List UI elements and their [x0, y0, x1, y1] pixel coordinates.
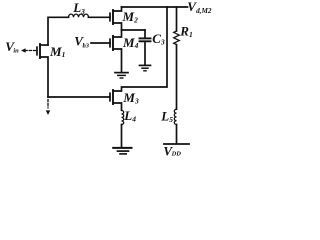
- svg-text:L4: L4: [123, 108, 136, 124]
- svg-text:M2: M2: [122, 9, 139, 24]
- svg-text:L5: L5: [160, 109, 173, 125]
- svg-text:M3: M3: [122, 90, 139, 105]
- svg-text:R1: R1: [179, 24, 192, 40]
- svg-text:VDD: VDD: [163, 143, 181, 156]
- svg-text:C3: C3: [152, 31, 165, 47]
- svg-text:Vin: Vin: [5, 39, 19, 55]
- svg-text:M4: M4: [122, 35, 139, 50]
- svg-text:Vb3: Vb3: [74, 34, 89, 50]
- svg-text:L3: L3: [72, 0, 85, 16]
- svg-text:Vd,M2: Vd,M2: [187, 0, 212, 15]
- svg-text:M1: M1: [49, 44, 65, 59]
